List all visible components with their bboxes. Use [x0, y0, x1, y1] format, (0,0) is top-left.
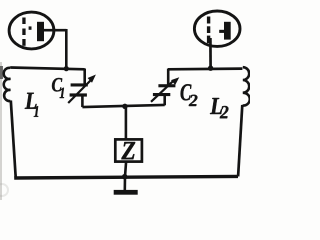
wire center (C1 bottom to C2 bottom) [82, 105, 164, 107]
label C2 [181, 84, 192, 100]
capacitor C1 bottom plate [70, 93, 87, 96]
capacitor C2 top stem [167, 69, 170, 85]
scan smudge left edge [0, 62, 2, 200]
capacitor C1 top stem [83, 69, 86, 84]
wire right vertical [238, 105, 242, 176]
junction node C (center) [122, 104, 127, 109]
junction node A [64, 66, 69, 71]
tube V1 envelope [9, 12, 54, 49]
label C1 [52, 78, 62, 92]
wire V1 anode lead [44, 29, 66, 32]
tube V2 anode stub [219, 30, 224, 33]
capacitor C1 arrow [68, 80, 90, 103]
tube V1 anode bar [37, 22, 44, 41]
impedance Z label [121, 142, 135, 159]
wire V1 down to node A [65, 29, 68, 69]
wire bottom [14, 176, 238, 178]
impedance Z stem bottom [125, 162, 126, 191]
tube V2 envelope [194, 11, 240, 46]
impedance Z stem top [125, 106, 128, 139]
wire V2 down to node B [209, 38, 212, 68]
capacitor C2 bottom stem [163, 96, 166, 105]
wire left vertical [11, 101, 16, 178]
capacitor C1 bottom stem [81, 96, 84, 107]
inductor L1 [4, 68, 11, 101]
wire top right (C2 top to L2 top) [168, 67, 243, 70]
tube V1 cathode dot [29, 26, 32, 29]
wire top left (L1 top to C1 top) [10, 68, 84, 70]
tube V2 anode bar [224, 22, 231, 40]
junction node B [208, 66, 213, 71]
ground [114, 190, 138, 195]
capacitor C2 top plate [158, 84, 175, 87]
tube V1 grid dashes [22, 18, 25, 46]
capacitor C2 bottom plate [153, 93, 170, 96]
label L1 [25, 93, 37, 109]
tube V2 grid dashes [207, 17, 210, 44]
impedance Z box [115, 139, 142, 161]
capacitor C2 arrow [151, 81, 173, 102]
junction node D (bottom center) [122, 174, 128, 180]
capacitor C1 top plate [71, 83, 88, 86]
label L2 [210, 98, 222, 114]
inductor L2 [242, 67, 249, 105]
